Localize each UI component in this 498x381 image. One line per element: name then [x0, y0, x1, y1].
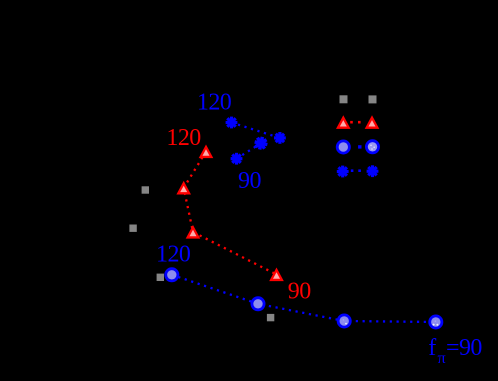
- blue asterisk A3: [274, 132, 286, 144]
- legend blue dot 1: [351, 169, 354, 172]
- blue asterisk A4: [231, 153, 243, 165]
- red triangle T1: [199, 145, 214, 159]
- legend blue dot: [358, 145, 361, 148]
- red triangle T2: [176, 181, 191, 195]
- legend red triangle right: [365, 115, 380, 129]
- blue asterisk A2 (double): [253, 136, 268, 151]
- wire: blue dotted line A4-A2: [237, 143, 262, 159]
- svg-text:f: f: [428, 335, 436, 361]
- legend red dot 1: [350, 121, 353, 124]
- blue asterisk A1: [226, 117, 238, 129]
- svg-text:120: 120: [156, 242, 191, 268]
- legend red triangle left: [336, 115, 351, 129]
- blue circle C1: [164, 267, 179, 282]
- legend blue circle right: [365, 139, 380, 154]
- svg-text:=90: =90: [446, 335, 482, 361]
- red triangle T4: [269, 268, 284, 282]
- red triangle T3: [186, 225, 201, 239]
- legend gray square left: [340, 95, 348, 103]
- svg-text:90: 90: [238, 168, 261, 194]
- gray square S4: [267, 314, 274, 321]
- legend blue asterisk left: [337, 166, 349, 178]
- gray square S1: [142, 186, 149, 193]
- wire: blue dotted polyline C1-C2-C3-C4: [172, 275, 436, 322]
- legend blue dot 2: [358, 169, 361, 172]
- svg-text:120: 120: [166, 125, 201, 151]
- legend blue circle left: [336, 140, 351, 155]
- gray square S3: [157, 274, 164, 281]
- legend red dot 2: [358, 121, 361, 124]
- gray square S2: [129, 225, 136, 232]
- blue circle C3: [337, 314, 352, 329]
- blue circle C2: [251, 296, 266, 311]
- blue circle C4: [428, 315, 443, 330]
- wire: blue dotted line A1-A3: [232, 123, 280, 138]
- wire: red dotted polyline T1-T2-T3-T4: [184, 152, 277, 275]
- svg-text:90: 90: [288, 279, 311, 305]
- legend blue asterisk right: [367, 165, 379, 177]
- legend gray square right: [369, 95, 377, 103]
- svg-text:π: π: [438, 348, 446, 367]
- svg-text:120: 120: [197, 89, 232, 115]
